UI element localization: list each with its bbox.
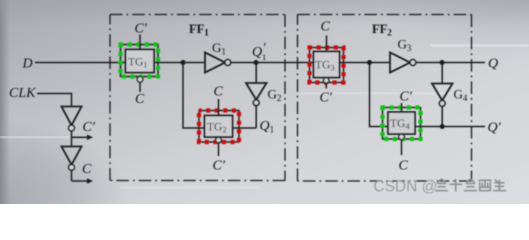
inverter G1 — [205, 53, 231, 73]
node B junction — [367, 60, 372, 65]
wire TG4 to output Q' — [415, 126, 485, 128]
transmission gate TG3 — [310, 36, 344, 89]
svg-text:Q′: Q′ — [488, 121, 502, 136]
svg-text:C: C — [82, 162, 92, 177]
inverter (CLK buffer 1) — [62, 107, 82, 131]
wire CLK to inverter chain — [37, 94, 72, 107]
svg-text:C′: C′ — [400, 90, 413, 105]
svg-text:C′: C′ — [83, 120, 96, 135]
wire node B to G3 — [370, 62, 391, 64]
transmission gate TG1 — [121, 35, 159, 93]
svg-text:C: C — [214, 85, 224, 100]
node Q junction — [440, 60, 445, 65]
FF1 enclosure box — [110, 15, 285, 181]
svg-text:D: D — [22, 57, 33, 72]
svg-text:Q: Q — [488, 57, 498, 72]
wire C branch with arrow — [72, 178, 94, 183]
svg-text:C: C — [135, 92, 145, 107]
transmission gate TG4 — [383, 103, 421, 155]
wire TG1 to node A — [154, 62, 183, 64]
wire node B down to TG4 — [370, 63, 389, 127]
wire TG3 to node B — [340, 62, 370, 64]
inverter (CLK buffer 2) — [62, 147, 82, 171]
wire G1 to node Q1' — [231, 62, 256, 64]
wire node A to G1 — [183, 62, 205, 64]
wire node Q to output Q — [442, 62, 485, 64]
svg-text:Q: Q — [252, 45, 262, 60]
svg-text:C: C — [399, 159, 409, 174]
inverter G3 — [390, 53, 416, 73]
inverter G2 — [246, 83, 267, 106]
wire node Q down to G4 — [441, 63, 443, 84]
wire node Q1' down to G2 — [255, 63, 257, 84]
node Q1' junction — [254, 60, 259, 65]
transmission gate TG2 — [199, 99, 239, 156]
wire node A down to TG2 — [183, 63, 205, 129]
wire G2 to Q1 line — [255, 106, 257, 128]
watermark CJK glyphs (drawn) — [436, 179, 506, 191]
wire G4 to Q' line — [441, 106, 443, 127]
wire inverter1 to inverter2 — [71, 131, 73, 147]
svg-text:C′: C′ — [213, 159, 226, 174]
svg-text:C: C — [321, 20, 331, 35]
node Q' junction — [440, 124, 445, 129]
svg-text:C′: C′ — [135, 22, 148, 37]
node A junction — [181, 60, 186, 65]
wire TG2 to Q1 — [233, 127, 257, 129]
wire G3 to node Q — [416, 62, 442, 64]
svg-text:CLK: CLK — [9, 86, 36, 101]
wire C-prime branch with arrow — [72, 135, 94, 140]
wire below inverter2 — [71, 170, 73, 181]
watermark CSDN — [374, 178, 439, 196]
inverter G4 — [432, 84, 453, 107]
wire D input to TG1 — [35, 62, 126, 64]
svg-text:CSDN @: CSDN @ — [374, 178, 438, 195]
FF2 enclosure box — [298, 15, 472, 182]
wire node Q1' to TG3 — [256, 62, 314, 64]
svg-text:C′: C′ — [320, 91, 333, 106]
